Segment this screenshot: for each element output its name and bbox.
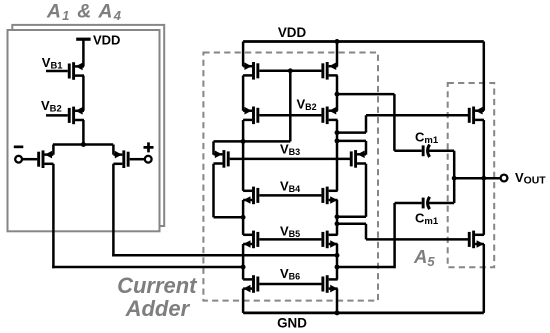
wire M4L drain to M5L [242,200,245,235]
node bottom Cm1 tap junction [335,265,340,270]
pmos M_VB2 (cascode, left block) [68,107,84,125]
node diode link junction [241,139,246,144]
node A5 nmos gate tap [335,221,340,226]
svg-text:VB3: VB3 [280,142,300,158]
wire M1L drain to M2L source [242,75,245,110]
wire plus terminal to M_inp gate [130,158,145,161]
nmos M6R (V_B6 right) [321,275,337,293]
wire M3R drain to right column [337,216,366,219]
wire A5 nmos drain to output [483,178,486,235]
A5 dashed box [448,83,495,267]
svg-text:VB6: VB6 [280,266,300,282]
wire A5 pmos gate line [366,114,468,117]
pmos M_inp (diff pair +) [113,150,129,168]
wire Cm1 top to output node [453,151,456,178]
wire VDD to M1R source [336,42,339,67]
wire Cm1 top right lead [428,150,454,153]
capacitor C_m1 (top) [422,145,430,157]
node left column input junction [241,265,246,270]
minus input label [14,146,23,149]
wire VDD to M1L source [242,42,245,67]
wire Cm1 top left riser [393,94,396,151]
pmos M2R (cascode V_B2 right) [321,107,337,125]
wire M_inm drain down [52,164,55,268]
node right column input junction [335,253,340,258]
node M3L drain junction [241,215,246,220]
wire V_B3 gate line [230,158,351,161]
wire mirror gate to diode link [289,71,292,142]
svg-text:A1 & A4: A1 & A4 [46,1,122,23]
nmos M6L (V_B6 left) [243,275,259,293]
wire M_VB1 drain to M_VB2 source [82,76,85,111]
pmos M_inm (diff pair -) [37,150,53,168]
wire M6R source to GND [336,289,339,313]
wire M5R drain to M6R [336,244,339,280]
wire V_B2 gate stub [46,114,68,117]
wire M1R drain to M2R source [336,75,339,110]
svg-text:VB5: VB5 [280,224,300,240]
wire M2L drain to mirror node [242,120,245,191]
V_OUT terminal [501,175,508,182]
GND rail [243,312,484,315]
block A1 & A4 front outline [8,30,160,231]
wire M1 gates [259,70,321,73]
svg-text:VDD: VDD [93,33,120,48]
pmos M1R (top mirror right) [321,62,337,80]
wire diode link horizontal [214,140,291,143]
nmos M_A5N (output stage) [468,231,484,249]
wire bottom Cm1 tap to riser [337,266,395,269]
nmos M5L (V_B5 left) [243,231,259,249]
svg-text:Current: Current [117,273,198,298]
pmos M2L (cascode V_B2 left) [243,107,259,125]
node output junction [481,176,486,181]
wire Cm1 top left lead [394,150,421,153]
node VDD-right column junction [335,39,340,44]
svg-text:VOUT: VOUT [515,170,546,187]
wire A5 nmos gate line [366,238,468,241]
node Cm1 output junction [452,176,457,181]
wire A5 pmos gate jog vertical [365,115,368,132]
node M3R drain junction [335,214,340,219]
svg-text:Adder: Adder [125,296,191,321]
wire VDD to M_VB1 source [82,39,85,66]
svg-text:Cm1: Cm1 [415,211,439,228]
plus input label [144,142,154,152]
node tail junction [81,142,86,147]
VDD rail (current adder) [243,40,484,43]
pmos M1L (top mirror left) [243,62,259,80]
wire M3L source riser to diode link [212,141,215,154]
wire M_inp source riser [112,145,115,155]
wire V_B2 gate line [259,114,321,117]
wire M_inm source riser [52,145,55,155]
tail rail wire [53,143,113,146]
wire A5 nmos source to GND [483,244,486,313]
wire M2R drain down right column [336,120,339,191]
wire lower tap to A5 nmos gate jog [337,223,366,226]
svg-text:Cm1: Cm1 [415,130,439,147]
wire M3L drain to left column [214,216,244,219]
wire M6L source to GND [242,289,245,313]
pmos M3R (V_B3 outer right) [350,150,366,168]
pmos M3L (V_B3 outer left) [214,150,230,168]
wire Cm1 bottom left riser [393,203,396,268]
wire M3L drain riser [212,164,215,218]
svg-text:VDD: VDD [278,25,307,40]
wire minus terminal to M_inm gate [22,158,37,161]
wire M_VB2 drain to tail node [82,120,85,145]
nmos M5R (V_B5 right) [321,231,337,249]
block A1 & A4 back outline (stacked page) [12,25,164,226]
wire Cm1 bottom to output node [453,178,456,203]
svg-text:VB4: VB4 [280,179,300,195]
node A5 pmos gate tap [335,130,340,135]
wire Cm1 bottom right lead [428,202,454,205]
wire top cascode node to Cm1 top [337,93,394,96]
plus input terminal [145,156,152,163]
wire M_inp drain to current adder right column [112,254,337,257]
wire A5 nmos gate jog vertical [365,224,368,240]
capacitor C_m1 (bottom) [422,197,430,209]
Current Adder dashed box [203,53,378,301]
node GND-right column junction [335,310,340,315]
wire M4R drain to M5R [336,200,339,235]
pmos M_VB1 (cascode, left block) [68,62,84,80]
wire V_B6 gate line [259,283,321,286]
svg-text:GND: GND [277,316,307,331]
node M3R source junction [335,138,340,143]
pmos M_A5P (output stage) [468,107,484,125]
wire M3R drain riser [365,164,368,217]
wire M_inp drain down [112,164,115,257]
wire M3R source riser [365,141,368,155]
svg-text:VB2: VB2 [297,96,317,112]
wire A5 pmos source to VDD [483,42,486,111]
wire V_B5 gate line [259,238,321,241]
nmos M4L (V_B4 left) [243,187,259,205]
nmos M4R (V_B4 right) [321,187,337,205]
wire M_inm drain to current adder left column [52,266,243,269]
wire Cm1 bottom left lead [395,202,422,205]
minus input terminal [15,156,22,163]
wire A5 pmos drain to output [483,120,486,178]
wire M3R source to right column [337,140,366,143]
wire output to terminal [454,177,500,180]
node mirror gate junction [288,68,293,73]
svg-text:A5: A5 [413,246,435,269]
wire V_B1 gate stub [46,70,68,73]
wire V_B4 gate line [259,194,321,197]
wire M2R drain to A5 pmos gate jog [337,131,366,134]
wire M5L drain to M6L [242,244,245,280]
VDD supply bar (left block) [76,38,90,41]
node top Cm1 tap junction [335,92,340,97]
